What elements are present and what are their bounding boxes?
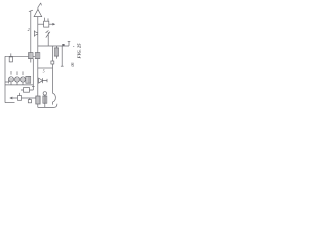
wire: tick at top of left rail xyxy=(29,10,33,11)
antenna / triangle symbol at top xyxy=(34,9,42,16)
wire: third bus with left arrow xyxy=(12,97,38,99)
stray dot xyxy=(73,46,74,47)
resistor R3 hatched on center rail xyxy=(35,53,40,59)
component box B2 xyxy=(24,88,30,93)
terminal tick bottom xyxy=(61,65,64,67)
left block: left edge xyxy=(4,56,6,102)
svg-text:FIG. 25: FIG. 25 xyxy=(77,43,82,59)
wire: right long vertical xyxy=(52,46,54,93)
wire: branch to the right with arrow xyxy=(38,23,53,25)
transistor Q4 xyxy=(22,71,24,75)
diode D2 pointing right xyxy=(39,78,43,83)
wire: drop from D1 xyxy=(47,37,49,46)
wire: bottom bus with corner hook xyxy=(38,104,57,108)
arrowhead left xyxy=(9,97,12,100)
wire: second bus in left block xyxy=(5,84,33,86)
left block: top bus xyxy=(5,55,35,57)
svg-text:5: 5 xyxy=(43,70,45,74)
resistor R4 hatched xyxy=(26,76,31,83)
component stub on top bus xyxy=(10,53,12,62)
wire hop (curve) xyxy=(53,93,56,102)
tick down with blob xyxy=(29,98,31,103)
junction blob xyxy=(62,44,64,46)
svg-text:2: 2 xyxy=(28,27,30,32)
wire: right vertical drop xyxy=(61,46,63,66)
transistor Q1 on center rail xyxy=(34,30,37,36)
wire: lead arrow above antenna xyxy=(38,3,42,9)
junction mark xyxy=(32,85,35,87)
component box on right vertical xyxy=(51,61,54,64)
wire: junction branch y68 xyxy=(38,67,53,69)
wire: left rail xyxy=(30,11,32,53)
terminal tick at right end xyxy=(68,41,71,46)
transistor Q2 xyxy=(10,71,12,75)
component box B3 on third bus xyxy=(19,93,21,96)
transistor Q3 xyxy=(16,71,18,75)
component box B1 on branch xyxy=(44,21,49,27)
diode D1 diagonal component xyxy=(46,31,50,38)
wire: mid horizontal bus xyxy=(38,45,69,47)
wire: left stub xyxy=(5,81,8,84)
pin tick above box B1 xyxy=(45,18,48,22)
resistor R2 hatched on bus xyxy=(29,53,34,59)
wire: main center rail xyxy=(37,17,39,108)
wire: inner vertical from R2 down xyxy=(32,59,34,90)
resistor R5 hatched on center rail bottom xyxy=(36,96,40,104)
resistor R1 hatched xyxy=(55,46,57,48)
left block: bottom-left foot xyxy=(5,102,15,104)
capacitor C1 with circle top xyxy=(43,92,46,95)
arrowhead right on branch xyxy=(52,23,55,26)
svg-text:90: 90 xyxy=(70,63,75,67)
